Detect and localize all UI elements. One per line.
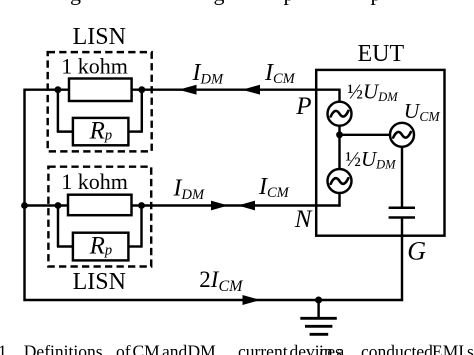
svg-text:N: N <box>294 206 313 233</box>
svg-text:g: g <box>70 0 81 6</box>
resistor R2 (1 kohm, bottom LISN) <box>68 195 132 216</box>
node: right junction dot of LISN2 <box>138 202 145 209</box>
ground symbol <box>300 300 337 334</box>
node: left junction dot of LISN2 <box>55 202 62 209</box>
svg-text:s: s <box>467 341 474 355</box>
svg-text:G: G <box>407 236 426 265</box>
svg-text:in: in <box>319 341 333 355</box>
wire: Rp2 branch left vertical <box>57 206 59 247</box>
node: ground junction dot <box>315 297 322 304</box>
wire: EUT interior vertical from P wire to source 1 <box>338 90 340 102</box>
arrow ICM top (pointing left) <box>242 85 260 95</box>
wire: Rp1 branch left horizontal <box>57 130 73 132</box>
wire: left bus vertical <box>23 89 25 302</box>
svg-text:CM: CM <box>133 341 161 355</box>
arrow 2ICM (pointing right) <box>243 295 261 305</box>
node: junction dot between sources <box>336 131 343 138</box>
arrow IDM row2 (pointing right) <box>211 201 228 211</box>
arrow IDM top (pointing left) <box>179 85 197 95</box>
wire: source1 to junction <box>338 126 340 169</box>
svg-text:devices: devices <box>290 341 343 355</box>
svg-text:p: p <box>284 0 295 6</box>
svg-text:EUT: EUT <box>358 41 405 67</box>
svg-text:EMI: EMI <box>432 341 464 355</box>
wire: top row from resistor R1 to EUT corner <box>132 88 341 90</box>
wire: Rp1 branch right vertical <box>141 90 143 132</box>
wire: Rp2 branch left horizontal <box>57 245 73 247</box>
node: left junction dot of LISN1 <box>55 86 62 93</box>
wire: second row from resistor R2 to EUT corner <box>132 204 341 206</box>
node: bus junction dot row2 <box>21 202 28 209</box>
wire: second row N line, left segment <box>24 204 69 206</box>
wire: bottom ground line <box>24 299 404 301</box>
wire: Rp2 branch right vertical <box>140 206 142 247</box>
wire: top row P line, left segment to bus <box>24 88 70 90</box>
svg-text:current: current <box>238 341 288 355</box>
svg-text:P: P <box>295 93 311 120</box>
svg-text:conducted: conducted <box>361 341 433 355</box>
svg-text:g: g <box>214 0 225 6</box>
caption (cropped at bottom) <box>0 341 474 355</box>
svg-text:DM: DM <box>188 341 217 355</box>
source V1 half UDM (circle with sine) <box>328 102 352 126</box>
svg-text:1 kohm: 1 kohm <box>61 169 128 194</box>
node: right junction dot of LISN1 <box>138 86 145 93</box>
arrow ICM row2 (pointing left) <box>238 201 255 211</box>
source UCM (circle with sine) <box>390 123 414 147</box>
svg-text:1 kohm: 1 kohm <box>61 53 128 78</box>
svg-text:LISN: LISN <box>73 24 126 50</box>
wire: Rp2 branch right horizontal <box>128 245 142 247</box>
svg-text:1.: 1. <box>0 341 11 355</box>
EUT box <box>316 70 444 236</box>
svg-text:of: of <box>116 341 131 355</box>
wire: capacitor down through box to bottom wire <box>401 218 403 302</box>
resistor R1 (1 kohm, top LISN) <box>69 79 132 102</box>
wire: source2 to N corner <box>338 193 340 207</box>
wire: Rp1 branch right horizontal <box>128 130 143 132</box>
resistor Rp (top LISN) <box>73 118 128 145</box>
wire: Rp1 branch left vertical <box>57 90 59 132</box>
LISN box 1 (dashed) <box>48 52 152 151</box>
LISN box 2 (dashed) <box>48 167 151 267</box>
capacitor C (CM capacitor) <box>389 206 415 209</box>
svg-text:p: p <box>371 0 382 6</box>
wire: UCM source down to capacitor <box>401 147 403 208</box>
svg-text:LISN: LISN <box>73 269 126 295</box>
svg-text:and: and <box>162 341 188 355</box>
svg-text:a: a <box>337 341 345 355</box>
wire: junction to UCM source <box>340 134 391 136</box>
resistor Rp (bottom LISN) <box>73 233 128 261</box>
svg-text:Definitions: Definitions <box>24 341 103 355</box>
source V2 half UDM (circle with sine) <box>328 169 352 193</box>
